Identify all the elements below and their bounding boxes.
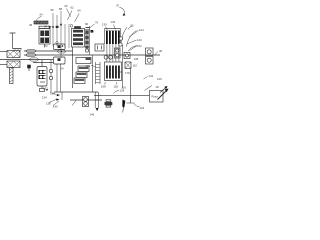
svg-text:66: 66 [85, 22, 89, 26]
svg-text:148: 148 [134, 57, 139, 61]
leader 128 [114, 91, 120, 94]
svg-text:140: 140 [53, 105, 58, 109]
pump feed wire [41, 60, 43, 89]
clutch pack side rails [105, 29, 121, 45]
svg-text:130: 130 [102, 23, 107, 27]
filter box [40, 89, 45, 92]
thick arrow lower right [158, 91, 167, 100]
svg-text:138: 138 [46, 102, 51, 106]
svg-text:152: 152 [137, 44, 142, 48]
svg-text:146: 146 [90, 113, 95, 117]
leader 60 diagonal [67, 9, 71, 17]
stack bar 1 [73, 30, 83, 33]
small valve bottom center [106, 100, 111, 102]
vertical x122.5 [122, 45, 124, 88]
clutch pack bars [106, 31, 108, 44]
ball clutch column [85, 49, 88, 52]
lower clutch bars [106, 66, 108, 79]
small box with ball [124, 53, 130, 59]
crosshatch box B [7, 61, 20, 68]
clutch shafts down [107, 44, 119, 62]
leader 120 [91, 66, 96, 67]
flow capsule 1 [26, 49, 37, 52]
stack bar 3 [73, 38, 83, 41]
riser x60.5 [60, 64, 62, 92]
vertical x89.5 [89, 26, 91, 55]
thin diagonal 18 leader [145, 86, 153, 91]
center stack box [72, 29, 85, 48]
flow capsule 4 [57, 50, 66, 53]
branch box upper [76, 58, 91, 64]
left clutch cells [85, 31, 89, 35]
wire y95.7 [94, 95, 150, 97]
nub 78 [91, 30, 94, 33]
lower clutch box [105, 62, 122, 81]
dot [62, 45, 64, 47]
wire y55 [24, 54, 160, 56]
svg-text:132: 132 [43, 87, 48, 91]
cluster circles left of vertical [115, 48, 121, 58]
arc 1 [121, 27, 127, 43]
leader x61 [60, 11, 62, 58]
small box with pin [95, 44, 104, 51]
svg-text:46: 46 [159, 49, 163, 53]
crosshatch box A [7, 51, 20, 58]
leader 130 to cap [106, 27, 108, 31]
valve cap [39, 26, 50, 28]
dot on leader x53 [52, 26, 54, 28]
tick diagonal [72, 101, 76, 106]
svg-text:56: 56 [51, 8, 55, 12]
svg-text:136: 136 [111, 20, 116, 24]
chain ball 1 [119, 37, 122, 40]
wire y62.5 [33, 62, 54, 64]
clutch pack top line [105, 28, 121, 30]
svg-text:18: 18 [156, 85, 160, 89]
x-box [125, 62, 131, 69]
ladder column [96, 62, 101, 84]
bottom-left arrowhead 1 [57, 94, 61, 96]
stair box 1 [78, 66, 89, 72]
ball on leader [56, 41, 58, 43]
svg-text:110: 110 [133, 64, 138, 68]
left stub y51.5 [0, 51, 7, 53]
vertical x132.5 with T foot [127, 69, 135, 104]
svg-text:76: 76 [95, 21, 99, 25]
svg-text:118: 118 [114, 85, 119, 89]
wire y59.5 [0, 59, 54, 61]
center stack cap [75, 27, 81, 29]
plunger tip [96, 108, 99, 111]
svg-text:142: 142 [149, 74, 154, 78]
leader x57 [56, 15, 58, 46]
left clutch column cap [85, 29, 91, 31]
svg-text:70: 70 [116, 4, 120, 8]
valve cell 1 [40, 31, 44, 37]
pump port tick [40, 81, 45, 83]
nub on leader x57 [56, 26, 59, 28]
valve cell 3 [40, 38, 44, 44]
svg-text:48: 48 [29, 23, 33, 27]
svg-text:134: 134 [42, 96, 47, 100]
hatch under bracket foot [13, 49, 22, 52]
leader 144 [129, 31, 139, 38]
bottom-left arrowhead 2 [56, 99, 60, 101]
leader 136 to cap [114, 25, 116, 30]
check ball 2 [49, 76, 52, 79]
leader 64 diagonal [75, 14, 80, 23]
wire y92 [54, 91, 98, 93]
leader 76 [90, 24, 95, 28]
svg-text:92: 92 [131, 24, 135, 28]
check ball 1 [49, 69, 52, 72]
mini box B [54, 57, 66, 64]
svg-text:178: 178 [125, 71, 130, 75]
leader 62 diagonal [68, 11, 73, 21]
clutch pack caps [106, 30, 120, 32]
leader 134 curve [134, 104, 140, 107]
arc 92 top right [128, 26, 133, 30]
top hook 70 [120, 8, 125, 15]
leader x53 [52, 13, 54, 46]
leader 46 [154, 52, 158, 56]
svg-text:134: 134 [140, 106, 145, 110]
svg-text:144: 144 [139, 28, 144, 32]
svg-text:72: 72 [45, 44, 49, 48]
stack bar 4 [73, 42, 83, 45]
svg-text:24: 24 [61, 67, 65, 71]
hatched strip [34, 21, 48, 24]
valve block box [39, 29, 50, 45]
mini box A [54, 44, 66, 50]
leader 152 [130, 46, 137, 51]
ball top row [70, 25, 73, 28]
vertical hatched bar [10, 68, 14, 84]
leader 142 [144, 77, 148, 80]
leader 118 [116, 82, 117, 85]
left stub y64.5 [0, 64, 7, 66]
main vertical x72.5 [72, 47, 74, 88]
riser x57 [56, 64, 58, 92]
stair box 3 [74, 78, 85, 84]
riser x62 [61, 92, 63, 100]
branch box nub [86, 58, 91, 61]
svg-text:60: 60 [65, 4, 69, 8]
ink blob arrow [122, 100, 125, 108]
wire nub drop [28, 68, 30, 71]
svg-text:120: 120 [86, 64, 91, 68]
riser x51 [50, 60, 52, 92]
wire y51 [24, 50, 73, 52]
svg-text:102: 102 [118, 70, 123, 74]
valve cell 4 [45, 38, 49, 44]
leader 140 [127, 40, 137, 44]
relay arrow [160, 88, 166, 93]
arrow 34 [49, 26, 52, 29]
relay box [150, 91, 164, 103]
svg-text:136: 136 [50, 92, 55, 96]
chevron on leader x61 [60, 23, 63, 25]
bottom-left leaders [49, 93, 59, 106]
stack bar 2 [73, 34, 83, 37]
stair box 2 [76, 72, 87, 78]
leader 54 hook [36, 17, 42, 22]
bracket support left [10, 33, 22, 49]
pump block [37, 67, 47, 87]
valve block stem [44, 44, 46, 48]
leader 108 [104, 82, 106, 85]
flow capsule 2 [26, 53, 37, 56]
svg-text:62: 62 [71, 6, 75, 10]
pump rotor band 2 [39, 75, 46, 79]
leader x69 [68, 24, 70, 48]
wire y100 [70, 99, 102, 101]
svg-text:54: 54 [40, 13, 44, 17]
ball pair on wire [104, 55, 108, 59]
valve cell 2 [45, 31, 49, 37]
svg-text:140: 140 [137, 38, 142, 42]
svg-text:Rotor: Rotor [152, 95, 158, 99]
pump rotor band 1 [39, 70, 46, 74]
svg-text:58: 58 [59, 7, 63, 11]
svg-text:108: 108 [101, 85, 106, 89]
gauge box with balls [83, 97, 89, 107]
flow capsule 3 [29, 58, 39, 61]
svg-text:64: 64 [78, 9, 82, 13]
svg-text:116: 116 [122, 86, 127, 90]
dash 66 [86, 27, 90, 29]
leader x65 [64, 24, 66, 48]
right gear box pair [146, 48, 154, 56]
vertical x92.5 [92, 55, 94, 92]
chain ball 2 [119, 43, 122, 46]
arc 3 [128, 46, 137, 52]
plunger column [95, 92, 98, 108]
svg-text:126: 126 [157, 77, 162, 81]
junction nub [28, 65, 31, 68]
dot by filter [46, 89, 48, 91]
svg-text:34: 34 [44, 25, 48, 29]
arc 2 [127, 31, 137, 47]
